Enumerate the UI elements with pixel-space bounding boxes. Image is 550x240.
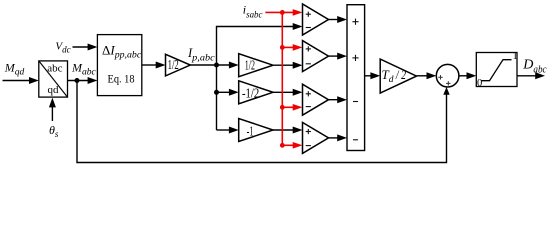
- svg-text:0: 0: [477, 78, 482, 89]
- wire theta_s arrow: [49, 98, 56, 121]
- wire comp1 to summer: [329, 19, 339, 21]
- svg-text:1/2: 1/2: [245, 58, 255, 73]
- wire output D_abc: [517, 75, 537, 77]
- wire V_dc arrow: [73, 44, 98, 51]
- comparator U2: [303, 41, 329, 72]
- wire M_qd input arrow: [3, 77, 39, 84]
- wire gain2 to comp2: [273, 64, 294, 66]
- wire gain1 to node: [190, 64, 230, 66]
- gain G3 -1/2: [239, 81, 273, 104]
- wire i_sabc red feed horizontal: [265, 11, 294, 13]
- svg-text:-1/2: -1/2: [242, 85, 259, 100]
- gain G4 -1: [239, 119, 273, 142]
- svg-text:-1: -1: [247, 124, 254, 139]
- gain Td/2: [380, 59, 416, 93]
- node junction dot row3: [214, 90, 219, 95]
- wire red stub comp2: [282, 46, 294, 48]
- wire circle to saturation: [459, 75, 468, 77]
- wire red stub comp3: [282, 106, 294, 108]
- svg-text:1: 1: [513, 51, 518, 62]
- svg-text:abc: abc: [47, 62, 62, 74]
- comparator U3: [303, 84, 329, 115]
- node red dot row1: [280, 10, 285, 15]
- wire M_abc: [68, 77, 98, 84]
- node red dot row4 corner: [280, 143, 285, 148]
- block Eq. 18 delta I: [97, 35, 142, 96]
- gain G1 1/2: [166, 54, 191, 76]
- gain G2 1/2: [239, 54, 273, 77]
- node red dot row3: [280, 105, 285, 110]
- block saturation: [476, 51, 517, 89]
- wire Eq18 to gain1: [142, 62, 166, 69]
- wire comp3 to summer: [329, 99, 339, 101]
- wire stub to gain4: [217, 129, 231, 131]
- summing circle: [436, 64, 459, 87]
- wire branch down: [216, 65, 218, 130]
- node junction dot M_abc: [75, 78, 80, 83]
- comparator U1: [303, 4, 329, 35]
- wire Td to summing circle: [417, 75, 429, 77]
- wire red vertical: [281, 12, 283, 145]
- block abc/qd transform: [39, 61, 68, 97]
- node red dot row2: [280, 45, 285, 50]
- wire red stub comp4: [282, 144, 294, 146]
- block summer rectangle: [347, 5, 365, 151]
- wire feedback bottom: [77, 81, 447, 163]
- svg-text:Eq. 18: Eq. 18: [108, 71, 135, 85]
- comparator U4: [303, 122, 329, 153]
- wire branch up to comparator1: [217, 27, 295, 66]
- wire gain3 to comp3: [273, 91, 294, 93]
- node junction dot I_p,abc: [214, 63, 219, 68]
- svg-text:1/2: 1/2: [168, 57, 179, 72]
- wire gain4 to comp4: [273, 129, 294, 131]
- svg-text:qd: qd: [48, 84, 60, 96]
- wire summer to Td gain: [365, 75, 372, 77]
- wire comp4 to summer: [329, 137, 339, 139]
- wire comp2 to summer: [329, 55, 339, 57]
- wire stub to gain3: [217, 91, 231, 93]
